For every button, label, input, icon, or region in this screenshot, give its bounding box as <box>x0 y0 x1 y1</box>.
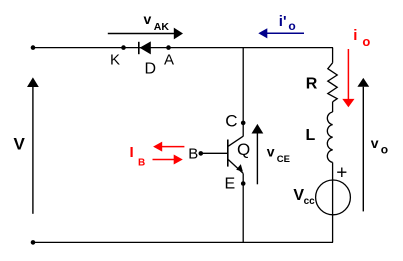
wire right branch top segment <box>332 48 334 63</box>
wire collector vertical <box>242 48 244 137</box>
arrow i_0 (red, points down) <box>347 49 349 100</box>
source Vcc (circle) <box>316 180 351 215</box>
diode D (cathode bar) <box>138 42 140 54</box>
svg-text:o: o <box>288 19 295 33</box>
node top-left terminal <box>31 45 36 50</box>
transistor Q (base bar) <box>227 140 229 167</box>
svg-text:v: v <box>267 144 275 160</box>
svg-text:R: R <box>306 76 318 93</box>
svg-text:K: K <box>110 52 120 69</box>
svg-text:L: L <box>306 127 316 144</box>
resistor R (zigzag) <box>328 63 337 102</box>
node K junction dot <box>121 45 126 50</box>
arrow v_CE (points up) <box>256 134 258 185</box>
arrow i'_0 (blue, points left) <box>265 32 304 34</box>
arrow v_0 (points up, right side) <box>362 87 364 212</box>
wire between R and L <box>332 102 334 112</box>
node B dot <box>199 151 204 156</box>
transistor Q (collector diagonal) <box>228 136 243 146</box>
node C dot <box>241 121 246 126</box>
transistor Q (base lead wire) <box>201 152 228 154</box>
svg-text:cc: cc <box>304 196 316 207</box>
inductor L (4 bumps) <box>327 112 332 162</box>
svg-text:Q: Q <box>237 140 250 159</box>
svg-text:B: B <box>138 158 145 169</box>
wire emitter vertical <box>242 173 244 242</box>
svg-text:I: I <box>130 144 134 161</box>
svg-text:o: o <box>362 34 370 49</box>
svg-text:D: D <box>145 61 157 78</box>
wire bottom rail <box>33 241 333 243</box>
svg-text:i: i <box>353 27 357 44</box>
wire between L and Vcc source <box>332 162 334 242</box>
svg-text:B: B <box>188 145 198 162</box>
diode D (triangle, pointing left) <box>140 41 151 54</box>
svg-text:C: C <box>225 112 237 131</box>
svg-text:v: v <box>144 11 152 27</box>
svg-text:E: E <box>225 176 236 193</box>
transistor Q (emitter diagonal) <box>228 160 243 174</box>
svg-text:V: V <box>14 134 26 153</box>
arrow v_AK (points right) <box>108 33 175 35</box>
arrow I_B right (red) <box>153 159 176 161</box>
transistor Q (emitter arrowhead) <box>236 164 243 172</box>
svg-text:AK: AK <box>154 21 170 33</box>
svg-text:o: o <box>381 143 388 157</box>
svg-text:i': i' <box>279 13 287 30</box>
wire top rail <box>33 47 333 49</box>
source arrow V (points up, left side) <box>32 87 34 214</box>
node bottom-left terminal <box>31 240 36 245</box>
arrow I_B left (red) <box>160 146 184 148</box>
node E dot <box>241 181 246 186</box>
svg-text:A: A <box>164 52 174 69</box>
node A junction dot <box>166 45 171 50</box>
svg-text:v: v <box>371 135 379 151</box>
svg-text:+: + <box>336 163 347 184</box>
svg-text:CE: CE <box>277 154 290 165</box>
